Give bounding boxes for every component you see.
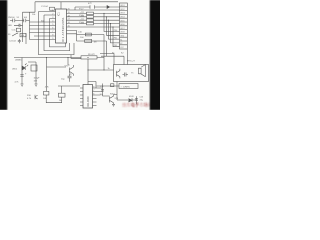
svg-text:K1: K1 bbox=[120, 39, 122, 41]
svg-text:IC1 AT89C2051: IC1 AT89C2051 bbox=[61, 17, 65, 42]
svg-text:LED4: LED4 bbox=[120, 17, 125, 19]
svg-text:⎓ 12MHz: ⎓ 12MHz bbox=[121, 87, 130, 89]
svg-text:LED: LED bbox=[8, 25, 13, 27]
svg-text:16V: 16V bbox=[34, 80, 38, 82]
svg-text:LM386: LM386 bbox=[15, 60, 22, 62]
svg-text:1k: 1k bbox=[108, 68, 110, 70]
svg-text:10μ: 10μ bbox=[100, 94, 103, 96]
svg-text:LED8: LED8 bbox=[120, 32, 125, 34]
svg-text:P1.7: P1.7 bbox=[79, 8, 84, 10]
svg-text:P1.5: P1.5 bbox=[79, 15, 84, 17]
svg-text:HTD-27: HTD-27 bbox=[128, 60, 136, 62]
svg-text:LED2: LED2 bbox=[120, 9, 125, 11]
svg-text:C1 104: C1 104 bbox=[41, 6, 49, 8]
svg-text:GND: GND bbox=[120, 36, 125, 38]
svg-text:IC1: IC1 bbox=[57, 12, 60, 16]
svg-text:100μF: 100μF bbox=[34, 77, 41, 79]
svg-text:LED1: LED1 bbox=[120, 5, 125, 7]
svg-text:LED7: LED7 bbox=[120, 28, 125, 30]
svg-text:维库电子市场网: 维库电子市场网 bbox=[122, 102, 152, 109]
svg-text:LED3: LED3 bbox=[120, 13, 125, 15]
svg-text:C4 104: C4 104 bbox=[9, 41, 17, 43]
svg-text:LED5: LED5 bbox=[120, 20, 125, 22]
svg-text:R9 472: R9 472 bbox=[88, 54, 96, 56]
svg-text:P1.3: P1.3 bbox=[79, 22, 84, 24]
svg-text:1M: 1M bbox=[94, 41, 97, 43]
svg-text:47μ: 47μ bbox=[140, 99, 143, 101]
svg-text:LED6: LED6 bbox=[120, 24, 125, 26]
svg-text:LED2: LED2 bbox=[12, 69, 18, 71]
svg-text:K2: K2 bbox=[120, 43, 122, 45]
svg-text:KD-9300: KD-9300 bbox=[86, 96, 90, 107]
